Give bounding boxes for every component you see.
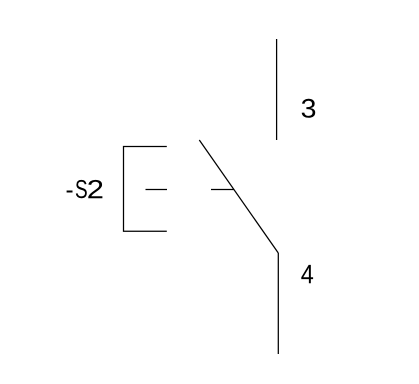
pin number 4 label	[301, 265, 313, 283]
wire: pin 4 connection (bottom vertical)	[277, 253, 279, 354]
pin number 3 label	[302, 99, 315, 118]
actuator linkage dash (left segment)	[146, 189, 168, 191]
switch -S2 moving contact blade (normally-open)	[199, 140, 278, 253]
wire: pin 3 connection (top vertical)	[276, 39, 278, 140]
actuator linkage dash (right segment, meets blade)	[211, 189, 234, 191]
pushbutton actuator bracket	[124, 147, 167, 232]
component designator -S2	[67, 180, 103, 198]
